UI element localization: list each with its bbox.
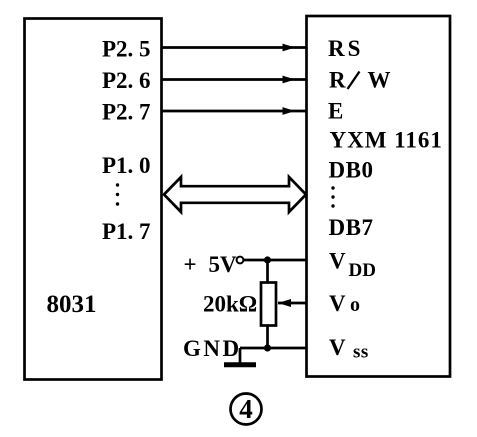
wire P2.7 to E — [162, 110, 307, 113]
svg-text:R: R — [329, 68, 346, 93]
potentiometer RP 20k body — [261, 283, 276, 326]
svg-text:V: V — [329, 335, 346, 360]
svg-text:8031: 8031 — [47, 291, 97, 318]
wiper arrowhead — [278, 299, 291, 307]
svg-text:V: V — [329, 291, 346, 316]
svg-text:GND: GND — [183, 336, 242, 361]
svg-text:P1. 7: P1. 7 — [102, 219, 151, 244]
svg-text:DB0: DB0 — [329, 158, 374, 183]
svg-text:o: o — [350, 294, 360, 316]
ground — [224, 348, 256, 365]
wire GND to VSS — [240, 347, 307, 350]
svg-text:4: 4 — [239, 394, 253, 424]
arrowhead on wire P2.7 — [283, 107, 296, 115]
svg-text:20kΩ: 20kΩ — [203, 292, 257, 317]
wiper wire Vo to potentiometer — [278, 302, 307, 305]
wire P2.6 to R/W — [162, 78, 307, 81]
ellipsis dots P1.x — [116, 183, 119, 205]
IC U2 YXM1161 LCD module box — [307, 16, 451, 377]
svg-text:V: V — [329, 249, 346, 274]
wire junction to potentiometer top — [266, 260, 269, 283]
arrowhead on wire P2.5 — [283, 44, 296, 52]
svg-text:P2. 5: P2. 5 — [102, 37, 151, 62]
wire potentiometer bottom to GND node — [266, 326, 269, 349]
+5V supply label — [184, 252, 238, 277]
IC U1 8031 microcontroller box — [25, 19, 162, 380]
svg-text:RS: RS — [328, 36, 363, 61]
svg-text:W: W — [368, 68, 391, 93]
junction node at VSS wire — [264, 344, 271, 351]
wire +5V to VDD — [244, 259, 307, 262]
pin label Vo — [329, 291, 360, 316]
svg-text:+: + — [184, 252, 197, 277]
svg-text:P1. 0: P1. 0 — [102, 153, 151, 178]
arrowhead on wire P2.6 — [283, 76, 296, 84]
svg-text:DD: DD — [349, 260, 376, 281]
pin label VDD — [329, 249, 376, 282]
data bus double arrow P1.0-P1.7 to DB0-DB7 — [164, 177, 306, 212]
svg-text:YXM 1161: YXM 1161 — [330, 128, 443, 153]
svg-text:P2. 7: P2. 7 — [102, 100, 151, 125]
svg-text:E: E — [328, 99, 343, 124]
wire P2.5 to RS — [162, 46, 307, 49]
+5V open terminal — [237, 257, 244, 264]
junction node at VDD wire — [264, 256, 271, 263]
pin label R/W — [329, 68, 391, 93]
svg-text:DB7: DB7 — [329, 215, 374, 240]
svg-text:P2. 6: P2. 6 — [102, 68, 151, 93]
svg-text:ss: ss — [353, 342, 369, 363]
figure number 4 (circled) — [231, 394, 262, 425]
ellipsis dots DBx — [331, 186, 334, 207]
svg-text:5V: 5V — [209, 252, 238, 277]
pin label Vss — [329, 335, 369, 363]
